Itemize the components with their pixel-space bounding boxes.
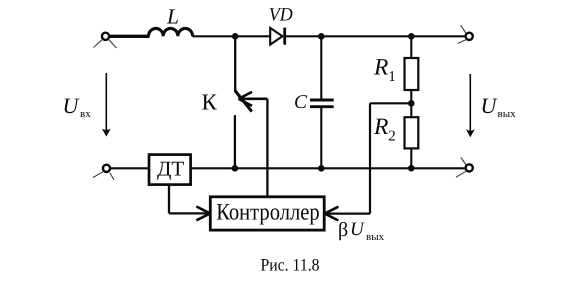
- svg-text:К: К: [202, 90, 218, 115]
- wire inductor to diode: [192, 35, 270, 37]
- feedback tap wire: [325, 103, 412, 213]
- wire bottom-left to DT: [110, 167, 149, 169]
- svg-text:1: 1: [388, 69, 396, 85]
- svg-text:L: L: [166, 5, 179, 29]
- svg-text:вых: вых: [366, 231, 385, 243]
- label R2: [373, 114, 396, 145]
- resistor R1: [405, 36, 419, 117]
- terminal top-right: [458, 25, 473, 43]
- node J4 divider tap: [408, 100, 415, 107]
- node J6 switch bottom: [232, 165, 239, 172]
- svg-text:2: 2: [388, 129, 396, 145]
- terminal bottom-left: [93, 165, 114, 180]
- svg-text:вх: вх: [80, 108, 91, 120]
- wire switch upper lead: [234, 36, 236, 91]
- svg-text:U: U: [481, 93, 499, 118]
- DT arrowhead into controller: [196, 207, 210, 221]
- wire bottom rail: [191, 167, 466, 169]
- svg-text:U: U: [350, 219, 365, 240]
- wire control line to controller: [266, 99, 268, 197]
- node J7 capacitor bottom: [318, 165, 325, 172]
- capacitor C: [310, 36, 334, 168]
- svg-text:C: C: [294, 92, 308, 113]
- output voltage arrow: [466, 74, 475, 137]
- diode VD: [270, 28, 285, 45]
- controller box U1: [210, 197, 324, 230]
- terminal bottom-right: [456, 158, 473, 178]
- svg-text:β: β: [338, 219, 348, 241]
- input voltage arrow: [102, 73, 111, 137]
- label U-in: [63, 93, 92, 120]
- label R1: [373, 55, 396, 86]
- label U-out: [481, 93, 517, 120]
- node J5 R2 bottom: [408, 165, 415, 172]
- svg-text:Рис. 11.8: Рис. 11.8: [261, 255, 320, 275]
- node J1 switch tap: [232, 33, 239, 40]
- wire diode to right terminal: [285, 35, 466, 37]
- resistor R2: [405, 117, 419, 168]
- svg-text:Контроллер: Контроллер: [216, 200, 320, 226]
- node J2 capacitor top: [318, 33, 325, 40]
- wire DT output: [169, 184, 210, 213]
- svg-text:вых: вых: [498, 108, 517, 120]
- wire switch lower lead: [234, 115, 236, 168]
- wire top-left segment: [109, 35, 149, 38]
- switch K blade: [235, 91, 252, 112]
- label beta-U-out: [338, 219, 385, 243]
- svg-text:VD: VD: [269, 5, 293, 26]
- svg-text:R: R: [373, 114, 388, 140]
- current sensor DT box: [149, 155, 191, 185]
- node J3 R1 top: [408, 33, 415, 40]
- svg-text:U: U: [63, 93, 81, 118]
- terminal top-left: [94, 33, 117, 48]
- svg-text:R: R: [373, 55, 388, 81]
- switch K control arrow: [239, 92, 268, 106]
- svg-text:ДТ: ДТ: [157, 156, 184, 180]
- feedback arrowhead into controller: [325, 207, 339, 221]
- inductor L: [149, 28, 193, 36]
